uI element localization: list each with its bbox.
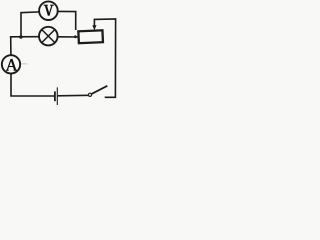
wire lamp right to rheostat left terminal: [58, 36, 77, 38]
wire voltmeter right, corner, drop toward rheostat: [58, 11, 75, 29]
battery short thick plate: [54, 92, 56, 100]
voltmeter V circle: [39, 1, 58, 20]
voltmeter label V (serif glyph): [44, 5, 54, 15]
wire top-left corner to voltmeter: [21, 12, 39, 37]
battery long thin plate: [56, 88, 58, 105]
lamp cross: [42, 30, 55, 43]
switch blade: [92, 86, 107, 94]
node junction dot at rheostat left: [74, 35, 77, 38]
rheostat box: [78, 30, 103, 43]
lamp circle: [39, 27, 58, 46]
wire left vertical down to ammeter: [10, 37, 12, 55]
rheostat slider arrowhead: [92, 25, 96, 30]
ammeter label A (serif glyph): [6, 59, 17, 70]
wire battery to switch pivot: [58, 94, 89, 97]
faint smudge right of ammeter: [21, 63, 28, 65]
switch pivot circle: [88, 93, 91, 96]
wire left horizontal to lamp: [11, 36, 39, 38]
ammeter A circle: [2, 55, 20, 73]
wire ammeter bottom to bottom-left corner to battery: [11, 74, 54, 96]
wire switch contact stub, right riser, top bracket to slider: [94, 19, 115, 97]
node junction dot left: [19, 35, 22, 38]
